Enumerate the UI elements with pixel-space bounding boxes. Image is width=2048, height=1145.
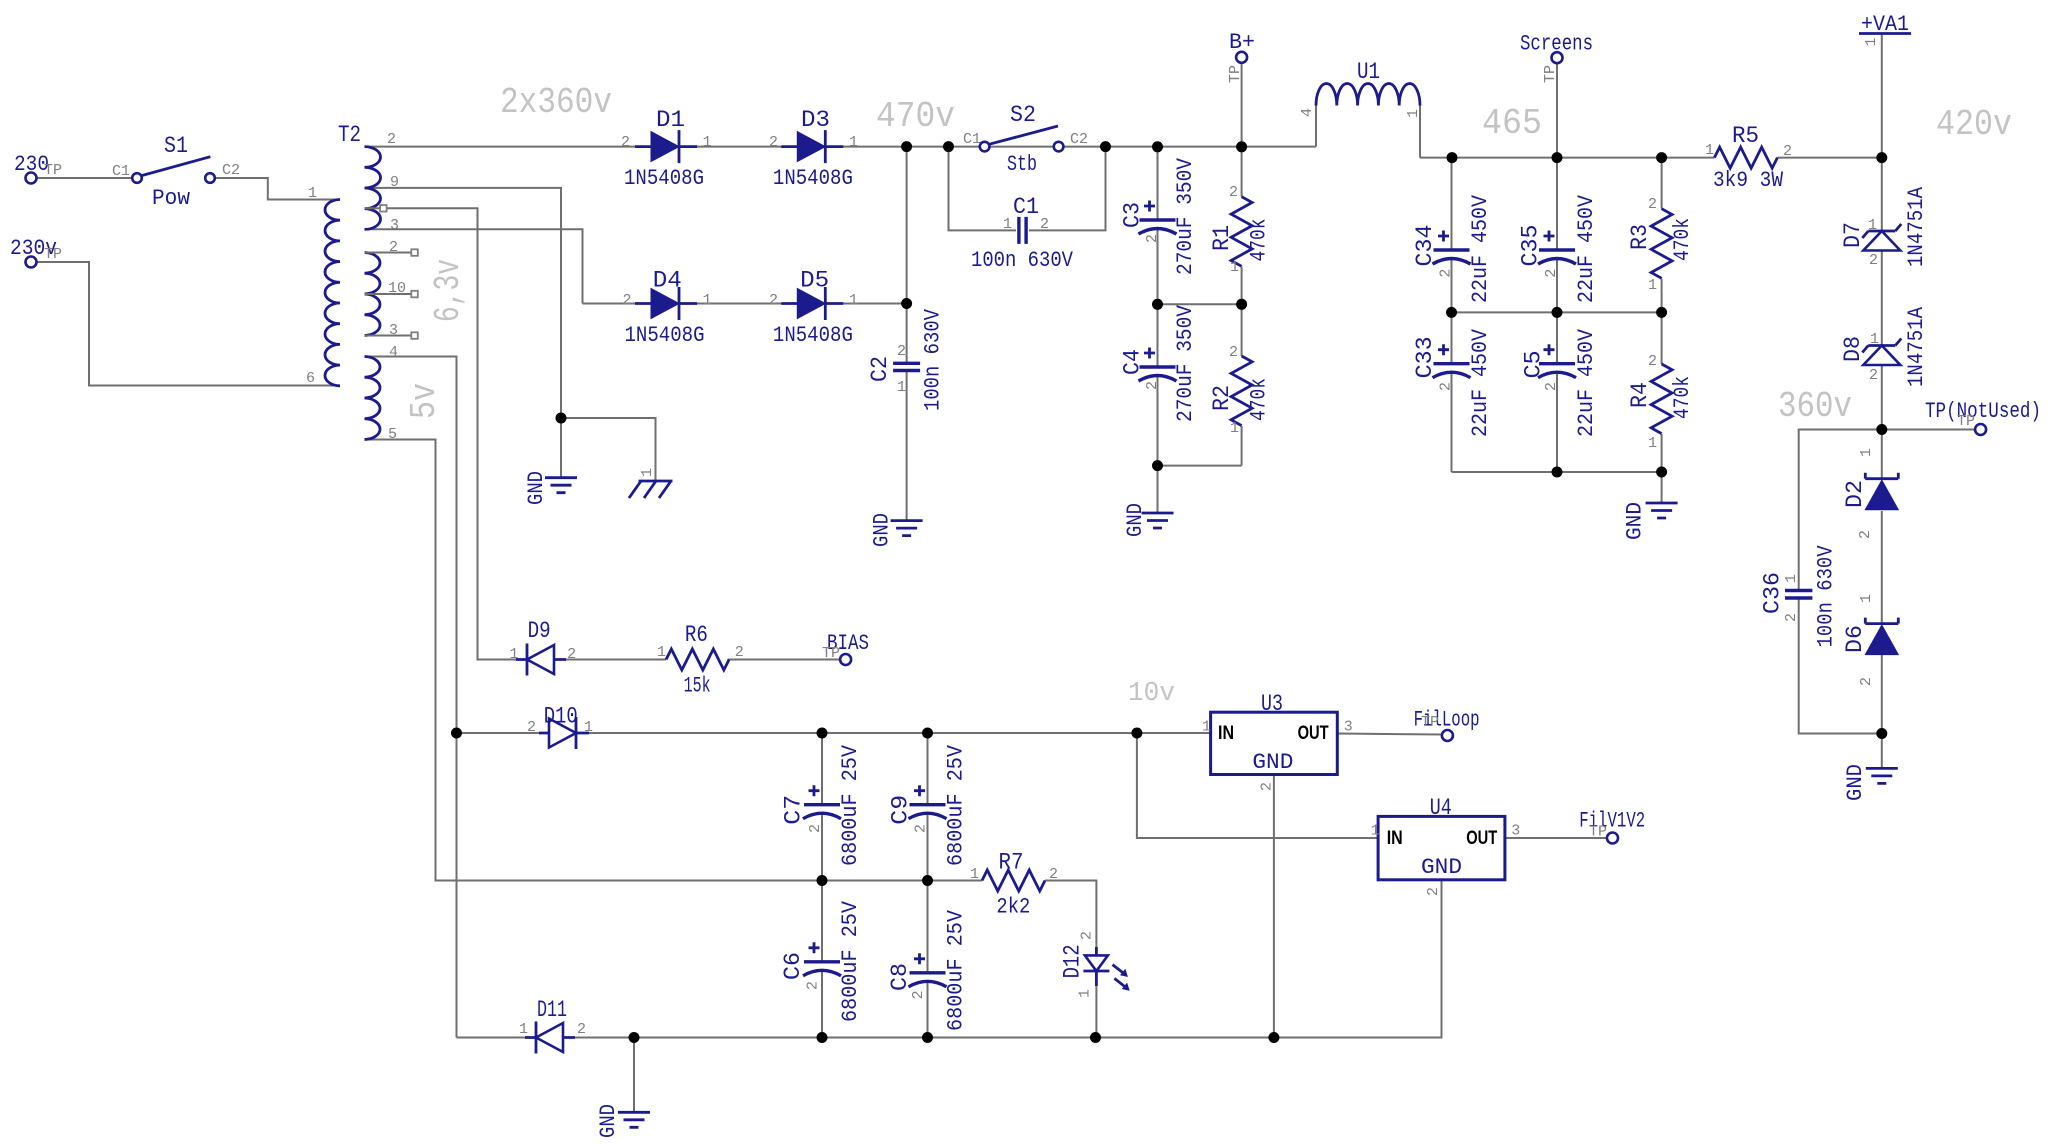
- svg-text:2: 2: [1783, 613, 1800, 622]
- svg-text:R6: R6: [685, 622, 708, 648]
- junction D10 rail at C7: [817, 728, 828, 739]
- test point B+: [1236, 52, 1247, 63]
- wire C6 pin2 to bottom rail: [821, 971, 823, 1038]
- svg-text:C3: C3: [1119, 202, 1145, 228]
- zener diode D7: [1862, 224, 1901, 251]
- svg-text:2: 2: [1858, 677, 1875, 686]
- svg-text:2: 2: [621, 134, 630, 151]
- svg-text:1: 1: [1705, 142, 1714, 159]
- pin square T2 6.3v pin2: [411, 249, 418, 256]
- wire C5 pin2 to bottom rail: [1556, 373, 1558, 472]
- svg-text:2: 2: [1438, 269, 1455, 278]
- junction bottom rail at C6: [817, 1032, 828, 1043]
- wire C1 pin2 up to rail: [1029, 147, 1106, 231]
- junction D10 row at pin4 wire: [451, 728, 462, 739]
- svg-text:100n 630V: 100n 630V: [921, 308, 946, 411]
- svg-text:TP: TP: [1227, 65, 1244, 83]
- wire R4 pin1 to bottom rail: [1661, 434, 1663, 472]
- svg-text:2: 2: [567, 646, 576, 663]
- resistor R5: [1714, 147, 1777, 168]
- svg-text:C9: C9: [887, 795, 913, 825]
- svg-text:2: 2: [1049, 866, 1058, 883]
- svg-text:TP: TP: [1421, 714, 1439, 731]
- ground GND T2 pin9: [545, 478, 577, 493]
- test point NotUsed: [1975, 424, 1986, 435]
- wire C9 pin2 to mid rail: [927, 814, 929, 881]
- wire +VA1 down to D7: [1881, 33, 1883, 231]
- svg-text:1: 1: [639, 468, 656, 477]
- svg-text:470k: 470k: [1247, 378, 1272, 421]
- wire C2 pin1 to GND: [906, 371, 908, 521]
- svg-text:C7: C7: [780, 795, 806, 825]
- wire D10 row to U3 IN: [457, 732, 1211, 734]
- switch S2 blade: [989, 126, 1058, 144]
- svg-text:1: 1: [1405, 109, 1422, 118]
- svg-text:R3: R3: [1627, 224, 1653, 250]
- svg-text:OUT: OUT: [1298, 723, 1329, 744]
- svg-text:D1: D1: [656, 107, 685, 133]
- wire stub T2 6.3v pin3: [365, 335, 412, 337]
- svg-text:1N5408G: 1N5408G: [625, 323, 705, 348]
- svg-text:465: 465: [1482, 103, 1542, 144]
- svg-text:2: 2: [389, 239, 398, 256]
- svg-text:22uF 450V: 22uF 450V: [1574, 194, 1599, 303]
- svg-text:R7: R7: [999, 850, 1024, 876]
- svg-text:2: 2: [910, 990, 927, 999]
- wire bottom rail to GND: [1661, 472, 1663, 503]
- wire D2 to D6: [1881, 511, 1883, 624]
- svg-text:GND: GND: [596, 1104, 621, 1138]
- svg-text:R2: R2: [1209, 385, 1235, 411]
- zener diode D8: [1862, 339, 1901, 366]
- svg-text:10v: 10v: [1128, 679, 1175, 709]
- wire stub to bias tap square: [365, 207, 381, 209]
- switch S1 blade: [142, 157, 210, 176]
- svg-text:2: 2: [1144, 234, 1161, 243]
- svg-text:2: 2: [1079, 931, 1096, 940]
- svg-text:1: 1: [1868, 217, 1877, 234]
- svg-text:S1: S1: [164, 133, 188, 159]
- wire D9 to R6: [553, 659, 666, 661]
- svg-text:1: 1: [1858, 594, 1875, 603]
- svg-text:6,3v: 6,3v: [428, 259, 469, 322]
- svg-text:2: 2: [1783, 143, 1792, 160]
- switch S1 contact C2: [205, 173, 215, 183]
- diode D1: [635, 130, 697, 163]
- transformer T2 secondary HV winding: [365, 147, 381, 230]
- wire 230 to S1: [36, 177, 132, 179]
- junction 470v rail at C3: [1152, 141, 1163, 152]
- svg-text:TP: TP: [44, 162, 62, 179]
- svg-text:4: 4: [389, 344, 398, 361]
- wire D10 rail to C9: [927, 733, 929, 805]
- wire U1 pin 1 lead: [1419, 106, 1421, 158]
- pin square T2 6.3v pin10: [411, 291, 418, 298]
- wire mid rail to R4 pin2: [1661, 312, 1663, 364]
- capacitor C1: [1019, 217, 1026, 244]
- wire branch to U4 IN: [1137, 733, 1378, 838]
- junction right bottom rail at R4: [1656, 467, 1667, 478]
- junction bottom rail at GND: [629, 1032, 640, 1043]
- svg-text:TP: TP: [44, 246, 62, 263]
- wire rail down to C1 pin1: [949, 147, 1017, 231]
- junction right mid rail at R4: [1656, 307, 1667, 318]
- wire R6 to BIAS TP: [728, 659, 841, 661]
- svg-text:270uF 350V: 270uF 350V: [1173, 157, 1198, 275]
- svg-text:470v: 470v: [876, 96, 955, 137]
- svg-text:6800uF 25V: 6800uF 25V: [838, 900, 863, 1022]
- transformer T2 secondary 6.3v winding: [365, 253, 381, 336]
- wire C3 C4 mid rail to R1 R2: [1158, 303, 1242, 305]
- svg-text:3: 3: [1511, 823, 1520, 840]
- ground GND R4: [1646, 503, 1678, 518]
- svg-text:C8: C8: [887, 963, 913, 991]
- svg-text:470k: 470k: [1670, 218, 1695, 261]
- svg-text:6800uF 25V: 6800uF 25V: [944, 744, 969, 866]
- svg-text:D9: D9: [528, 618, 551, 644]
- svg-text:1: 1: [849, 134, 858, 151]
- svg-text:D10: D10: [544, 703, 578, 729]
- junction left mid rail at C4: [1152, 299, 1163, 310]
- svg-text:D12: D12: [1060, 944, 1086, 978]
- svg-text:1: 1: [897, 379, 906, 396]
- svg-text:GND: GND: [1622, 502, 1647, 540]
- diode D3: [781, 130, 843, 163]
- wire bottom rail to GND symbol: [633, 1038, 635, 1113]
- junction D10 rail at U4 branch: [1131, 728, 1142, 739]
- junction 420v node: [1876, 152, 1887, 163]
- wire R5 to 420v node: [1777, 157, 1882, 159]
- capacitor C36: [1785, 591, 1812, 599]
- svg-text:360v: 360v: [1778, 386, 1852, 427]
- pin square T2 bias tap: [380, 205, 387, 212]
- junction D10 rail at C9: [922, 728, 933, 739]
- capacitor C34: [1433, 231, 1471, 265]
- junction right bottom rail at C5: [1552, 467, 1563, 478]
- wire rail to R1 pin2: [1241, 147, 1243, 197]
- wire 470v rail T2 pin2 to U1: [365, 146, 1317, 148]
- svg-text:2: 2: [1869, 367, 1878, 384]
- svg-text:R4: R4: [1627, 382, 1653, 408]
- wire R2 pin1 lead: [1241, 426, 1243, 466]
- wire C33 pin2 to bottom rail: [1451, 373, 1453, 472]
- wire Screens TP down to rail: [1556, 63, 1558, 157]
- wire bottom rail to U4 GND: [457, 880, 1442, 1038]
- svg-text:2: 2: [1869, 252, 1878, 269]
- wire D10 rail to C7: [821, 733, 823, 805]
- wire rail to C3 pin2: [1157, 147, 1159, 220]
- svg-text:5: 5: [388, 426, 397, 443]
- svg-text:1: 1: [1230, 420, 1239, 437]
- wire D4 D5 row: [583, 303, 907, 305]
- junction C36 bottom node: [1876, 728, 1887, 739]
- wire T2 pin5 down to mid rail and R7 pin1: [365, 440, 983, 881]
- svg-text:2x360v: 2x360v: [500, 82, 612, 123]
- svg-text:U3: U3: [1261, 691, 1283, 717]
- wire D12 pin1 to bottom rail: [1095, 971, 1097, 1038]
- svg-text:T2: T2: [338, 122, 361, 148]
- wire T2 pin9 to GND: [365, 188, 562, 478]
- svg-text:S2: S2: [1010, 102, 1036, 128]
- capacitor C4: [1139, 348, 1177, 382]
- svg-text:2: 2: [1543, 382, 1560, 391]
- capacitor C35: [1538, 231, 1576, 265]
- junction bottom rail at D12: [1090, 1032, 1101, 1043]
- svg-text:C33: C33: [1412, 336, 1438, 378]
- junction 360v node: [1876, 424, 1887, 435]
- svg-text:3: 3: [389, 322, 398, 339]
- svg-text:TP: TP: [822, 645, 840, 662]
- svg-text:3k9 3W: 3k9 3W: [1713, 168, 1784, 193]
- svg-text:1N5408G: 1N5408G: [624, 166, 704, 191]
- wire mid rail to R2 pin2: [1241, 304, 1243, 356]
- switch S1 contact C1: [132, 173, 142, 183]
- wire C8 pin2 to bottom rail: [927, 982, 929, 1038]
- switch S2 contact C1: [980, 142, 990, 152]
- wire stub T2 6.3v pin2: [365, 252, 412, 254]
- svg-text:6: 6: [306, 370, 315, 387]
- wire C36 pin2 to bottom node: [1799, 599, 1882, 734]
- svg-text:C1: C1: [963, 131, 981, 148]
- junction 470v rail at C1 left: [943, 141, 954, 152]
- svg-text:9: 9: [390, 174, 399, 191]
- ground GND C4: [1142, 513, 1174, 528]
- resistor R1: [1231, 197, 1252, 267]
- svg-text:C4: C4: [1119, 349, 1145, 375]
- svg-text:2: 2: [1144, 381, 1161, 390]
- wire R2 pin1 to C4 bottom: [1158, 465, 1242, 467]
- svg-text:1: 1: [657, 644, 666, 661]
- svg-text:D3: D3: [801, 107, 830, 133]
- svg-text:2: 2: [769, 134, 778, 151]
- capacitor C33: [1433, 344, 1471, 378]
- svg-text:6800uF 25V: 6800uF 25V: [838, 744, 863, 866]
- svg-text:2: 2: [1040, 216, 1049, 233]
- svg-text:2: 2: [1648, 196, 1657, 213]
- svg-text:1: 1: [1858, 448, 1875, 457]
- wire D7 to D8: [1881, 251, 1883, 346]
- regulator U3: [1211, 712, 1338, 774]
- svg-text:270uF 350V: 270uF 350V: [1173, 304, 1198, 422]
- wire C35 pin2 to C5: [1556, 259, 1558, 364]
- capacitor C5: [1538, 344, 1576, 378]
- svg-text:5v: 5v: [404, 383, 445, 419]
- junction left mid rail at R2: [1236, 299, 1247, 310]
- svg-text:C5: C5: [1521, 350, 1547, 378]
- svg-text:D5: D5: [800, 268, 829, 294]
- svg-text:1N5408G: 1N5408G: [773, 166, 853, 191]
- capacitor C6: [803, 942, 841, 976]
- svg-text:D6: D6: [1842, 625, 1868, 653]
- diode D4: [635, 287, 697, 320]
- svg-text:GND: GND: [1421, 855, 1462, 880]
- svg-text:1: 1: [1003, 216, 1012, 233]
- capacitor C3: [1139, 201, 1177, 235]
- wire U3 OUT to FilLoop TP: [1337, 734, 1442, 735]
- svg-text:3: 3: [1344, 719, 1353, 736]
- wire stub T2 6.3v pin10: [365, 293, 412, 295]
- test point Screens: [1552, 52, 1563, 63]
- ground GND bottom: [618, 1112, 650, 1127]
- svg-text:1: 1: [703, 292, 712, 309]
- svg-text:15k: 15k: [684, 673, 711, 698]
- svg-text:1: 1: [308, 185, 317, 202]
- svg-text:470k: 470k: [1670, 376, 1695, 419]
- svg-text:2: 2: [623, 292, 632, 309]
- svg-text:420v: 420v: [1936, 104, 2012, 145]
- diode D5: [781, 287, 843, 320]
- svg-text:1: 1: [1077, 989, 1094, 998]
- wire S1 C2 to T2 pin1: [215, 178, 340, 200]
- wire R1 pin1 to mid rail: [1241, 267, 1243, 305]
- svg-text:470k: 470k: [1247, 219, 1272, 262]
- svg-text:1: 1: [849, 292, 858, 309]
- svg-text:2: 2: [769, 292, 778, 309]
- junction 465 rail at R3: [1656, 152, 1667, 163]
- svg-text:2: 2: [1438, 382, 1455, 391]
- junction 470v rail at B+: [1236, 141, 1247, 152]
- svg-text:1: 1: [1371, 823, 1380, 840]
- wire T2 pin3 down to D4 row: [365, 229, 583, 303]
- wire B+ TP down to rail: [1241, 63, 1243, 147]
- svg-text:C2: C2: [1070, 131, 1088, 148]
- wire U4 OUT to FilV1V2 TP: [1505, 837, 1608, 839]
- svg-text:C36: C36: [1760, 572, 1786, 614]
- resistor R6: [666, 649, 729, 670]
- junction 465 rail at C34: [1447, 152, 1458, 163]
- svg-text:D4: D4: [653, 268, 682, 294]
- svg-text:2: 2: [807, 824, 824, 833]
- svg-text:1N5408G: 1N5408G: [773, 323, 853, 348]
- wire C3 pin1 to C4 pin2: [1157, 229, 1159, 367]
- svg-text:1N4751A: 1N4751A: [1904, 186, 1929, 267]
- svg-text:2: 2: [1229, 344, 1238, 361]
- resistor R2: [1231, 356, 1252, 426]
- svg-text:U1: U1: [1357, 59, 1380, 85]
- junction D5 output: [901, 298, 912, 309]
- svg-text:22uF 450V: 22uF 450V: [1468, 328, 1493, 437]
- svg-text:1: 1: [510, 646, 519, 663]
- ground GND C2: [891, 521, 923, 536]
- svg-text:TP: TP: [1589, 824, 1607, 841]
- svg-text:R5: R5: [1732, 123, 1759, 149]
- wire R7 pin2 to D12: [1045, 881, 1096, 956]
- svg-text:TP: TP: [1542, 65, 1559, 83]
- svg-text:2: 2: [1857, 530, 1874, 539]
- LED D12: [1083, 947, 1129, 990]
- svg-text:1: 1: [970, 866, 979, 883]
- wire C4 pin1 to GND: [1157, 376, 1159, 513]
- svg-text:2: 2: [1259, 782, 1276, 791]
- svg-text:22uF 450V: 22uF 450V: [1574, 328, 1599, 437]
- wire 465 rail U1 to R5: [1420, 157, 1714, 159]
- svg-text:2: 2: [897, 343, 906, 360]
- wire branch to chassis ground: [561, 418, 656, 481]
- svg-text:U4: U4: [1430, 795, 1452, 821]
- svg-text:C35: C35: [1518, 225, 1544, 267]
- diode D9: [516, 644, 566, 676]
- svg-text:2k2: 2k2: [996, 895, 1030, 920]
- wire right bottom rail: [1452, 471, 1662, 473]
- svg-text:2: 2: [527, 719, 536, 736]
- wire T2 bias tap down to D9: [380, 208, 527, 659]
- wire 230v to T2 pin6: [36, 262, 340, 386]
- svg-text:C1: C1: [1013, 194, 1039, 220]
- svg-text:C2: C2: [867, 356, 893, 382]
- wire U1 pin 4 lead: [1315, 106, 1317, 147]
- test point BIAS: [840, 654, 851, 665]
- svg-text:1: 1: [1230, 259, 1239, 276]
- capacitor C9: [909, 785, 947, 819]
- wire 360v node to TP NotUsed: [1882, 429, 1975, 431]
- svg-text:22uF 450V: 22uF 450V: [1468, 194, 1493, 303]
- wire T2 pin4 down to D11 row: [365, 357, 457, 1038]
- svg-text:1: 1: [1863, 37, 1880, 46]
- wire junction down to C2: [906, 147, 908, 363]
- svg-text:1: 1: [1202, 719, 1211, 736]
- ground GND 360v column: [1866, 768, 1898, 783]
- switch S2 contact C2: [1054, 142, 1064, 152]
- wire C7 pin2 to mid rail: [821, 814, 823, 881]
- diode D2: [1865, 473, 1898, 510]
- diode D10: [539, 717, 589, 749]
- svg-text:1: 1: [1783, 574, 1800, 583]
- transformer T2 secondary 5v winding: [365, 357, 381, 440]
- svg-text:C6: C6: [780, 952, 806, 980]
- junction right mid rail at C5: [1552, 307, 1563, 318]
- regulator U4: [1378, 816, 1505, 879]
- wire 465 rail to C35: [1556, 158, 1558, 250]
- resistor R3: [1651, 209, 1672, 279]
- test point 230: [26, 173, 37, 184]
- svg-text:100n 630V: 100n 630V: [971, 248, 1074, 273]
- wire 360v node to C36 pin1: [1799, 430, 1882, 591]
- svg-text:Stb: Stb: [1007, 152, 1037, 177]
- chassis ground: [629, 481, 673, 498]
- wire U3 GND pin down to bottom rail: [1273, 775, 1275, 1038]
- junction mid rail at C9 C8: [922, 875, 933, 886]
- svg-text:2: 2: [1543, 269, 1560, 278]
- svg-text:2: 2: [1648, 353, 1657, 370]
- svg-text:GND: GND: [524, 471, 549, 505]
- svg-text:1: 1: [584, 719, 593, 736]
- wire D6 to GND node: [1881, 655, 1883, 768]
- svg-text:2: 2: [1425, 887, 1442, 896]
- svg-text:2: 2: [913, 824, 930, 833]
- junction right mid rail at C33: [1446, 307, 1457, 318]
- wire R3 pin1 to mid rail: [1661, 279, 1663, 313]
- svg-text:2: 2: [387, 131, 396, 148]
- junction bottom rail at C8: [922, 1032, 933, 1043]
- diode D11: [525, 1022, 575, 1054]
- resistor R7: [982, 870, 1045, 891]
- svg-text:1: 1: [1648, 277, 1657, 294]
- capacitor C7: [803, 785, 841, 819]
- wire mid rail to C6: [821, 881, 823, 962]
- capacitor C8: [909, 953, 947, 987]
- svg-text:GND: GND: [1123, 503, 1148, 537]
- junction 470v rail at C2 branch: [901, 141, 912, 152]
- svg-text:R1: R1: [1209, 225, 1235, 251]
- pin square T2 6.3v pin3: [411, 332, 418, 339]
- svg-text:IN: IN: [1218, 723, 1234, 744]
- svg-text:2: 2: [735, 644, 744, 661]
- svg-text:TP(NotUsed): TP(NotUsed): [1925, 399, 2041, 424]
- svg-text:C2: C2: [222, 162, 240, 179]
- junction 465 rail at Screens: [1552, 152, 1563, 163]
- svg-text:GND: GND: [870, 513, 895, 547]
- svg-text:1: 1: [703, 134, 712, 151]
